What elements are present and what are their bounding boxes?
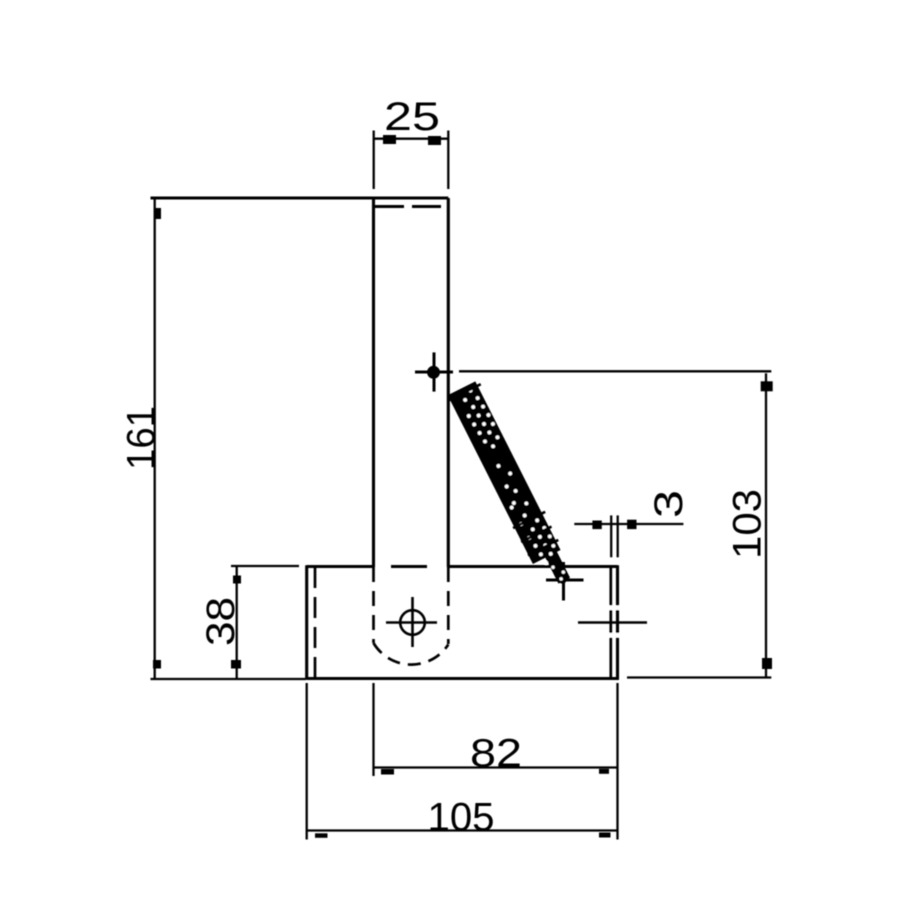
upright bar: top edge + left extension line for 161 — [151, 197, 449, 200]
white gaps in right flange lines at hole — [608, 606, 620, 638]
side hole centerline on right flange — [578, 621, 647, 624]
dim 25: dimension line — [374, 138, 449, 140]
bottom pivot centermark horizontal — [546, 579, 584, 582]
dim 82: left extension line — [372, 683, 374, 776]
diagonal strut: hatched rod body — [446, 380, 576, 591]
upright bar: hidden right edge inside plate — [447, 567, 450, 644]
top pivot centermark vertical — [433, 352, 436, 391]
dim 38: dimension line — [236, 566, 238, 679]
dim 105: left extension line — [306, 683, 308, 840]
dim 161 arrows — [156, 208, 162, 219]
upright bar: hidden rounded bottom arc — [374, 643, 449, 665]
base plate: left inner hidden fold line — [314, 567, 317, 678]
dim 82/105: right extension line — [616, 683, 618, 840]
dim 25 arrows — [383, 135, 396, 144]
svg-text:82: 82 — [470, 732, 522, 776]
base plate: right inner edge — [609, 567, 612, 679]
svg-text:103: 103 — [726, 489, 770, 559]
base plate: left edge — [305, 565, 308, 680]
upright bar: hidden left edge inside plate — [372, 567, 375, 643]
dimension arrows (small filled squares) — [153, 135, 773, 838]
svg-text:161: 161 — [120, 406, 164, 470]
bottom pivot eye blob — [558, 575, 566, 583]
top pivot eye blob — [427, 366, 440, 379]
dim 105: dimension line — [307, 829, 618, 831]
thread tick marks — [449, 384, 560, 556]
thread speckle pattern — [454, 386, 572, 587]
base plate: top edge hidden behind bar — [391, 565, 427, 568]
hole circle in bar — [400, 610, 425, 635]
upright bar: right edge — [447, 198, 450, 567]
base plate: right outer edge — [616, 565, 619, 680]
hole centerline vertical — [411, 597, 414, 647]
hole centerline horizontal — [386, 621, 437, 624]
dim 103: bottom extension line — [627, 676, 771, 678]
dim 103: dimension line — [765, 373, 767, 677]
base plate: bottom edge — [307, 677, 619, 680]
dim 25: extension lines — [373, 131, 375, 190]
svg-text:105: 105 — [428, 796, 495, 840]
svg-text:38: 38 — [199, 597, 243, 646]
strut tail toward lower pivot — [543, 547, 570, 583]
dim 161/38: bottom extension line — [151, 678, 307, 680]
top pivot centermark horizontal — [415, 371, 453, 374]
dim 3 arrows — [592, 521, 601, 530]
dim 103: top extension line — [459, 370, 771, 372]
dim 82 arrows — [381, 769, 394, 775]
bottom pivot centermark vertical — [562, 562, 565, 601]
base plate: top edge left solid part — [307, 565, 374, 568]
dim 38: top extension line — [231, 565, 299, 567]
dim 103 arrows — [761, 381, 773, 391]
svg-text:25: 25 — [384, 95, 440, 139]
dim 82: dimension line — [374, 766, 618, 768]
dim 3: dimension line — [574, 523, 683, 525]
dim 38 arrows — [233, 576, 241, 584]
svg-text:3: 3 — [647, 490, 691, 518]
dim 105 arrows — [315, 833, 328, 838]
dim 3: extension lines — [610, 515, 612, 557]
upright bar: hidden line below top edge — [375, 205, 404, 208]
base plate: top edge right solid part — [448, 565, 617, 568]
dim 161: dimension line — [154, 198, 156, 679]
upright bar: left edge — [372, 198, 375, 567]
